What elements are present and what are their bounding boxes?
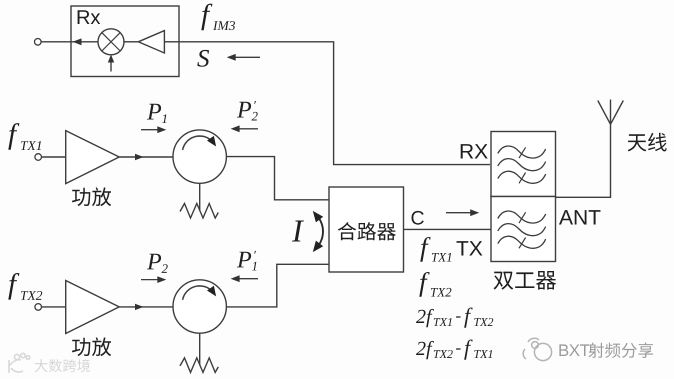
circulator rotation arc — [183, 136, 214, 150]
wire circulator1 to combiner — [226, 157, 329, 200]
arrow right under P label — [141, 129, 162, 131]
label f_TX2 — [8, 273, 42, 300]
wire amplifier to circulator with arrowhead — [119, 306, 173, 308]
BXT logo icon — [523, 338, 551, 360]
circulator — [173, 130, 226, 183]
wire terminal to amplifier — [42, 156, 66, 158]
duplexer TX filter box — [491, 197, 556, 262]
label f_TX1 — [8, 123, 41, 150]
termination zigzag — [180, 204, 218, 219]
combiner box 合路器 — [329, 187, 404, 272]
label 功放 — [72, 337, 111, 356]
wire mixer to amplifier — [123, 41, 138, 43]
wire combiner to duplexer TX port — [404, 228, 492, 230]
input terminal — [35, 154, 42, 161]
power amplifier triangle — [66, 131, 120, 184]
label f_TX1 at TX port — [420, 237, 451, 262]
power amplifier triangle — [66, 281, 120, 334]
label 双工器 — [494, 271, 557, 290]
duplexer RX filter box — [491, 132, 556, 197]
wire Rx box to duplexer RX port — [179, 42, 490, 165]
label f_TX2 — [419, 272, 451, 297]
Rx receiver box — [71, 6, 179, 77]
wire circulator2 to combiner — [226, 264, 329, 307]
label I isolation — [292, 221, 304, 242]
arrow right under P label — [141, 279, 162, 281]
label P1 forward power — [147, 104, 167, 123]
label 天线 — [628, 133, 667, 152]
circulator — [173, 280, 226, 333]
antenna symbol — [598, 100, 624, 125]
arrow left for S — [231, 56, 260, 58]
arrow left under P label — [235, 128, 258, 130]
label P2 forward power — [147, 254, 168, 273]
label 2f_TX1 - f_TX2 — [416, 308, 493, 328]
wire mixer to terminal with left arrowhead — [41, 41, 99, 43]
circulator rotation arc — [183, 286, 214, 300]
input terminal — [35, 304, 42, 311]
label TX — [457, 241, 483, 255]
label ANT — [559, 210, 601, 224]
mixer — [98, 29, 124, 55]
wire terminal to amplifier — [42, 306, 66, 308]
watermark text 大数跨境 — [35, 359, 91, 372]
watermark logo bottom-left — [9, 353, 30, 373]
label P1 prime reflected power — [237, 251, 257, 271]
watermark text BXT射频分享 — [559, 344, 589, 356]
arrow left under P label — [235, 278, 258, 280]
wire amplifier to circulator with arrowhead — [119, 156, 173, 158]
label P2 prime reflected power — [237, 101, 258, 121]
wire amplifier to box edge — [164, 41, 179, 43]
termination load wire — [199, 333, 201, 365]
TX filter wavy symbol — [498, 211, 546, 223]
termination load wire — [199, 183, 201, 211]
arrow right at C — [446, 212, 475, 214]
label 功放 — [72, 187, 111, 206]
node C — [412, 211, 424, 225]
RX filter wavy symbol — [498, 146, 546, 158]
label 合路器 — [338, 222, 396, 240]
label RX — [461, 144, 488, 158]
label 2f_TX2 - f_TX1 — [416, 340, 492, 360]
Rx output terminal — [35, 39, 42, 46]
wire duplexer ANT port to antenna — [556, 124, 611, 197]
label S received signal — [197, 50, 209, 67]
termination zigzag — [180, 358, 218, 373]
curved double-headed arrow — [316, 215, 323, 249]
Rx amplifier (points left) — [138, 31, 164, 53]
LO arrow into mixer — [110, 58, 112, 72]
label Rx — [78, 10, 101, 24]
label f_IM3 — [201, 4, 235, 31]
